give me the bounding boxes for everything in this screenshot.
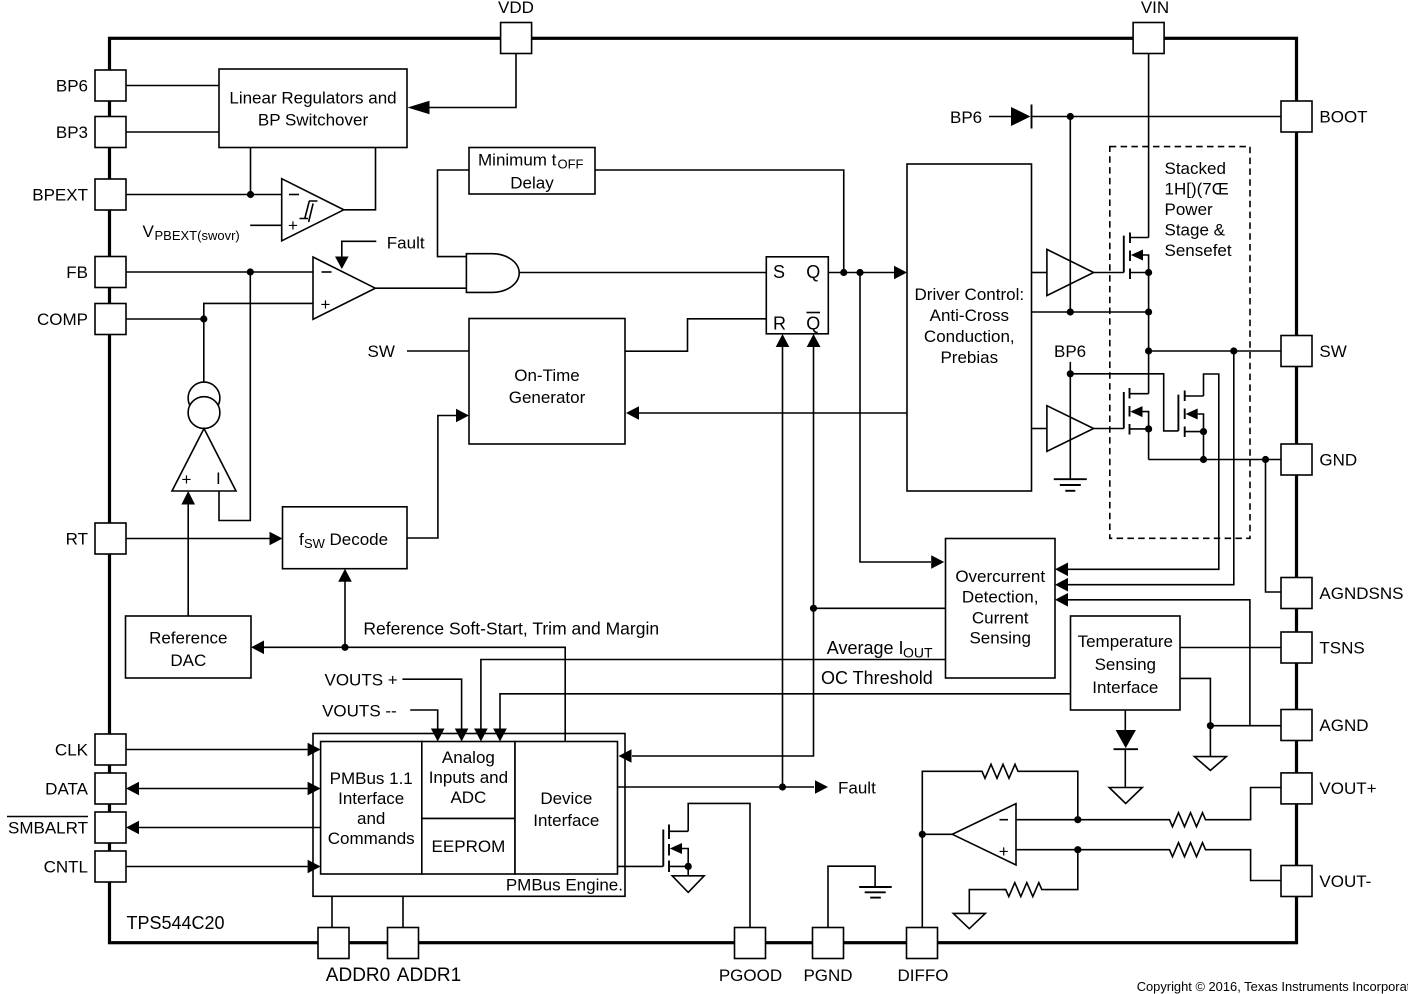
svg-text:and: and [357,809,385,828]
wire OC threshold to ADC [500,694,1071,729]
svg-text:VIN: VIN [1141,0,1169,17]
svg-text:BP6: BP6 [1054,342,1086,361]
svg-text:OUT: OUT [903,645,933,661]
dashed power-stage outline [1110,147,1250,539]
wire COMP branch to U4 + input [204,303,313,319]
PMBus Engine outer box [313,734,625,897]
svg-text:AGNDSNS: AGNDSNS [1319,584,1403,603]
svg-text:FB: FB [66,263,88,282]
svg-text:RT: RT [66,530,88,549]
pin BPEXT [32,179,126,210]
svg-text:Power: Power [1165,200,1214,219]
svg-text:SMBALRT: SMBALRT [8,819,88,838]
wire SW to on-time generator [407,350,469,352]
pin ADDR1 [388,928,462,987]
diode D2 (temperature sense) [1114,710,1139,788]
wire high-side source to SW [1148,273,1150,394]
svg-text:BPEXT: BPEXT [32,186,88,205]
svg-text:+: + [321,295,331,314]
wire temperature block to AGND [1180,678,1210,756]
wire latch Qbar to device interface [632,347,814,756]
svg-text:PGOOD: PGOOD [719,966,782,985]
wire gm amp I output to FB node [219,272,250,521]
wire RT to fSW decode [126,538,270,540]
svg-text:Average I: Average I [827,638,904,658]
block Analog Inputs and ADC [422,742,515,819]
svg-text:BP6: BP6 [56,77,88,96]
svg-text:ADC: ADC [450,788,486,807]
svg-text:S: S [773,262,785,282]
svg-text:Copyright © 2016, Texas Instru: Copyright © 2016, Texas Instruments Inco… [1137,979,1408,994]
svg-text:V: V [143,222,155,241]
wire SW rail to SW pin [1149,350,1281,352]
block PMBus 1.1 Interface and Commands [321,742,422,875]
svg-text:OC Threshold: OC Threshold [821,668,933,688]
wire overcurrent reset branch [814,607,946,609]
ground (BP6 driver) [1054,479,1087,491]
wire BOOT supply through driver A1 [1069,117,1071,313]
svg-text:Sensefet: Sensefet [1165,241,1232,260]
diode D1 (BP6 to BOOT) [950,105,1281,129]
svg-text:GND: GND [1319,451,1357,470]
wire COMP to current source [126,318,204,320]
svg-text:PGND: PGND [803,966,852,985]
pin AGND [1281,710,1369,741]
block fSW Decode [283,507,408,569]
svg-text:Conduction,: Conduction, [924,327,1015,346]
svg-text:VDD: VDD [498,0,534,17]
wire FB to comparator U4 [126,271,313,273]
wire high-side driver output to FET gate [1094,272,1124,274]
svg-text:VOUTS +: VOUTS + [325,671,398,690]
wire VOUT- sense [1208,850,1281,881]
svg-text:VOUT+: VOUT+ [1319,779,1376,798]
wire driver return line [1032,311,1149,313]
pin VIN [1133,0,1169,54]
transistor Q3 sensefet [1178,391,1207,438]
wire low-side driver output to FET gate [1094,428,1124,430]
block EEPROM [422,819,515,875]
wire average IOUT to ADC [481,660,946,730]
wire DATA to PMBus (bidirectional) [139,788,308,790]
svg-text:1H[)(7Œ: 1H[)(7Œ [1165,180,1229,199]
pin FB [66,257,126,288]
wire driver control to low-side driver [1032,428,1047,430]
wire R1 to diff amp minus [1016,819,1167,821]
wire TSNS from temperature block [1180,647,1281,649]
svg-text:DATA: DATA [45,780,88,799]
svg-text:Reference: Reference [149,629,227,648]
wire Q branch to overcurrent block [860,273,931,563]
svg-text:ADDR1: ADDR1 [397,965,461,986]
svg-text:Sensing: Sensing [969,629,1030,648]
pin GND [1281,444,1357,475]
pin BP3 [56,117,126,148]
pin DATA [45,773,126,804]
pin PGOOD [719,928,782,986]
wire PGND to power ground [828,866,875,927]
wire fSW decode from reference [344,581,346,647]
pin RT [66,523,126,554]
svg-text:R: R [773,314,786,334]
wire AND gate output to latch S [519,272,766,274]
chip outer border [110,38,1297,942]
svg-text:VOUTS --: VOUTS -- [322,702,397,721]
resistor R2 (VOUT-) [1167,843,1208,857]
block On-Time Generator [469,319,625,445]
pin TSNS [1281,632,1365,663]
wire U4 output to AND gate [375,287,466,289]
block Minimum tOFF Delay [469,148,595,195]
resistor R3 (feedback) [980,764,1021,778]
ground agnd (open triangle right) [1194,757,1226,771]
svg-text:Interface: Interface [533,811,599,830]
wire BP6 pin to linear regulator [126,85,219,87]
wire BPEXT branch to linear regulator bottom [250,148,252,195]
svg-text:Temperature: Temperature [1078,632,1173,651]
comparator U3 (BP switchover, hysteresis) [282,179,344,241]
svg-text:Delay: Delay [510,174,554,193]
svg-text:BP3: BP3 [56,123,88,142]
svg-text:OFF: OFF [558,157,584,172]
ground agnd (open triangle under diode) [1109,788,1142,804]
block Reference DAC [126,616,252,678]
wire sensefet source to GND rail [1203,432,1205,460]
svg-text:I: I [216,469,221,488]
pin DIFFO [898,928,949,986]
resistor R1 (VOUT+) [1167,813,1208,827]
wire Reference DAC to gm amp [187,502,189,616]
pin AGNDSNS [1281,578,1403,609]
svg-text:Decode: Decode [330,530,389,549]
wire VDD to linear regulator [428,54,516,108]
AND gate U5 [466,254,519,293]
wire driver control to high-side driver [1032,272,1047,274]
svg-text:COMP: COMP [37,310,88,329]
svg-text:Inputs and: Inputs and [429,768,508,787]
svg-text:Reference Soft-Start, Trim and: Reference Soft-Start, Trim and Margin [363,619,659,639]
wire GND sense to AGNDSNS [1266,460,1282,593]
svg-text:SW: SW [1319,342,1346,361]
pin VDD [498,0,534,54]
pin BOOT [1281,101,1368,132]
transistor Q4 PGOOD open-drain [618,825,692,873]
wire reference soft-start trim margin [264,647,565,741]
svg-text:Q: Q [806,262,820,282]
comparator U4 (PWM comparator) [313,257,375,319]
wire sensefet drain sense to overcurrent [1068,374,1219,569]
wire SW sense to overcurrent [1068,351,1234,585]
svg-text:+: + [288,216,298,235]
wire Minimum tOFF Delay output to AND gate [438,170,470,257]
svg-text:Stage &: Stage & [1165,221,1226,240]
svg-text:+: + [999,842,1009,861]
wire VPBEXT(swovr) to U3 + input [250,224,282,226]
svg-text:TSNS: TSNS [1319,639,1364,658]
svg-text:CLK: CLK [55,741,89,760]
pin PGND [803,928,852,986]
svg-text:Driver Control:: Driver Control: [915,285,1025,304]
block Device Interface [515,742,618,875]
svg-text:CNTL: CNTL [44,858,88,877]
svg-text:Linear Regulators and: Linear Regulators and [229,89,396,108]
svg-text:Sensing: Sensing [1095,655,1156,674]
wire fSW decode to on-time generator [407,416,456,539]
wire AGND rail to pin [1210,725,1281,727]
svg-text:PBEXT(swovr): PBEXT(swovr) [155,228,240,243]
pin SMBALRT [7,812,126,843]
svg-text:Analog: Analog [442,748,495,767]
svg-text:Device: Device [540,789,592,808]
wire Fault flag into U4 [342,241,377,257]
svg-text:Generator: Generator [509,388,586,407]
diff amp U6 [952,804,1016,865]
svg-text:Minimum t: Minimum t [478,151,557,170]
wire VOUTS+ to ADC [402,679,461,729]
svg-text:Q: Q [806,314,820,334]
svg-text:Interface: Interface [338,789,404,808]
svg-text:DIFFO: DIFFO [898,966,949,985]
wire VOUTS-- to ADC [410,710,438,729]
svg-text:Anti-Cross: Anti-Cross [930,306,1009,325]
svg-text:BP Switchover: BP Switchover [258,111,369,130]
svg-text:DAC: DAC [170,651,206,670]
wire BP3 pin to linear regulator [126,131,219,133]
driver A1 (high-side) [1047,249,1094,295]
wire latch Q output to driver control [828,272,894,274]
wire CLK to PMBus [126,749,308,751]
transistor Q2 low-side FET [1124,388,1152,435]
svg-text:Fault: Fault [838,779,876,798]
wire SMBALRT from PMBus [139,827,321,829]
svg-text:Stacked: Stacked [1165,159,1226,178]
block Temperature Sensing Interface [1071,616,1181,710]
pin CNTL [44,851,126,882]
wire Minimum tOFF Delay input from Q [595,170,844,273]
svg-text:PMBus Engine.: PMBus Engine. [506,876,623,895]
pin VOUT+ [1281,773,1377,804]
SR latch U2 [766,257,828,334]
wire CNTL to PMBus [126,866,308,868]
transistor Q1 high-side FET [1124,233,1152,280]
pin VOUT- [1281,866,1371,897]
driver A2 (low-side) [1047,406,1094,452]
svg-text:On-Time: On-Time [514,366,580,385]
ground pgnd [859,887,892,898]
svg-text:BP6: BP6 [950,108,982,127]
svg-text:Commands: Commands [328,829,415,848]
ground agnd (open triangle, R4) [953,913,985,928]
wire diff amp output [922,833,952,835]
wire VIN to high-side FET drain [1148,54,1150,238]
svg-text:Prebias: Prebias [940,348,998,367]
wire on-time generator output to latch R [625,319,766,351]
wire BP6 to sensefet gate [1070,374,1178,431]
wire U3 output to linear regulator bottom [344,148,376,210]
svg-text:SW: SW [368,342,395,361]
wire BP6 supply vertical [1069,362,1071,479]
wire ADDR1 stub [402,896,404,927]
svg-text:PMBus 1.1: PMBus 1.1 [330,769,413,788]
block U1 Linear Regulators and BP Switchover [219,69,407,148]
svg-text:Current: Current [972,609,1029,628]
wire ADDR0 stub [331,896,333,927]
pin SW [1281,336,1347,367]
svg-text:+: + [182,470,192,489]
svg-text:Detection,: Detection, [962,588,1039,607]
pin COMP [37,304,126,335]
wire BPEXT to comparator U3 [126,194,282,196]
wire latch R from device interface [782,347,784,787]
transconductance amp / current source (COMP) [172,382,236,491]
svg-text:TPS544C20: TPS544C20 [127,913,225,933]
pin CLK [55,734,126,765]
ground agnd (open triangle, Q4) [672,876,704,893]
svg-text:BOOT: BOOT [1319,108,1367,127]
wire driver control to on-time generator [639,412,907,414]
svg-text:Interface: Interface [1092,678,1158,697]
svg-text:SW: SW [304,536,326,551]
svg-text:ADDR0: ADDR0 [326,965,390,986]
wire VOUT+ sense [1208,788,1281,820]
pin ADDR0 [318,928,390,987]
wire fault output from device interface [618,786,815,788]
wire AGND sense from overcurrent [1068,600,1250,726]
wire R4 to ground [969,890,1005,914]
resistor R4 (to analog ground) [1003,883,1044,897]
label Stacked NexFET power stage [1165,159,1232,260]
wire R3 to diff amp output node [922,771,979,927]
wire Q4 source to ground [687,866,689,875]
svg-text:VOUT-: VOUT- [1319,872,1371,891]
svg-text:AGND: AGND [1319,716,1368,735]
wire diff amp feedback [1021,771,1078,819]
block Overcurrent Detection, Current Sensing [946,539,1056,679]
wire low-side source to GND rail [1148,429,1150,460]
wire Q4 drain to PGOOD pin [688,803,750,927]
block Driver Control: Anti-Cross Conduction, Prebias [907,164,1032,491]
wire R2 to diff amp plus [1016,849,1167,851]
svg-text:EEPROM: EEPROM [432,837,506,856]
pin BP6 [56,70,126,101]
svg-text:Fault: Fault [387,234,425,253]
wire diff amp plus to ground resistor [1044,850,1078,890]
svg-text:Overcurrent: Overcurrent [955,567,1045,586]
